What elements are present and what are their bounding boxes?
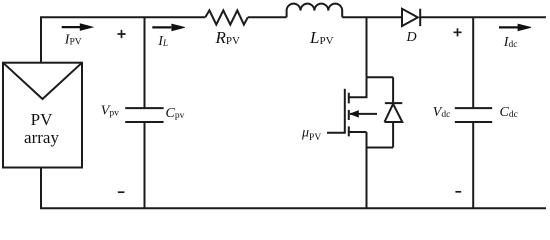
wire MOSFET source lead down to bottom rail [366,132,368,208]
minus sign near C_dc bottom [455,191,461,193]
wire source-to-body-diode bottom connector [367,147,394,149]
arrow on MOSFET body line (points left) [350,111,358,117]
wire top-left lead from PV array to top rail [40,17,42,62]
svg-text:Vdc: Vdc [433,105,451,120]
resistor R_PV [205,10,248,24]
body diode of MOSFET [385,103,403,122]
transistor MOSFET gate bar [344,89,346,134]
wire C_dc bottom lead [472,122,474,208]
wire drain jog into channel [349,77,367,97]
svg-text:μPV: μPV [301,125,321,143]
wire drain-to-body-diode top connector [367,76,394,78]
capacitor C_dc [455,108,492,122]
svg-text:D: D [406,30,417,45]
wire C_dc top lead [472,17,474,108]
diode D [402,9,420,26]
svg-text:Cpv: Cpv [166,106,185,121]
capacitor C_pv [125,108,163,122]
wire top rail segment B (resistor to inductor) [248,16,287,18]
wire body diode branch lower [392,122,394,148]
plus sign near C_pv top [118,30,126,38]
arrow I_dc [499,26,518,28]
minus sign near C_pv bottom [118,191,125,193]
wire top rail segment A (left corner to resistor) [40,16,205,18]
PV array chevron [3,63,82,99]
svg-text:Cdc: Cdc [500,105,518,120]
svg-text:Vpv: Vpv [101,104,119,119]
svg-text:LPV: LPV [309,28,334,47]
svg-text:RPV: RPV [215,28,241,47]
wire top rail segment D (diode to right edge) [420,16,546,18]
wire body diode branch upper [392,77,394,103]
wire C_pv top lead [144,17,146,108]
PV array box [3,63,82,168]
wire MOSFET drain lead from top rail [366,17,368,77]
svg-text:IPV: IPV [64,33,82,48]
plus sign near C_dc top [454,28,462,36]
wire MOSFET body line with arrow [350,113,377,115]
svg-text:Idc: Idc [503,35,518,50]
wire C_pv bottom lead [144,122,146,208]
svg-text:PV: PV [31,110,53,129]
arrow I_PV [62,26,81,28]
wire PV array bottom lead [40,168,42,209]
wire top rail segment C (inductor to diode) [342,16,402,18]
transistor MOSFET channel bar segments [348,93,350,137]
svg-text:array: array [24,128,59,147]
arrow I_L [152,26,171,28]
wire gate lead [327,132,345,134]
inductor L_PV [287,4,343,18]
wire bottom rail [40,207,546,209]
wire MOSFET source stub [349,131,367,133]
svg-text:IL: IL [157,34,168,49]
